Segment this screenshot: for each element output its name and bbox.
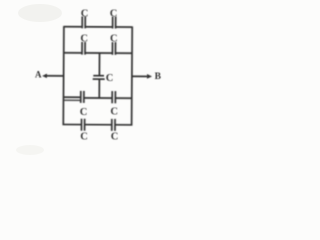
svg-text:C: C xyxy=(80,107,88,118)
svg-text:C: C xyxy=(80,33,88,44)
svg-text:C: C xyxy=(110,8,118,19)
svg-text:C: C xyxy=(80,131,88,142)
svg-text:C: C xyxy=(110,33,118,44)
svg-text:C: C xyxy=(81,8,89,19)
svg-text:C: C xyxy=(111,131,119,142)
svg-text:C: C xyxy=(110,106,118,117)
svg-text:C: C xyxy=(106,73,114,84)
svg-text:A: A xyxy=(35,69,42,79)
svg-text:B: B xyxy=(155,72,162,82)
